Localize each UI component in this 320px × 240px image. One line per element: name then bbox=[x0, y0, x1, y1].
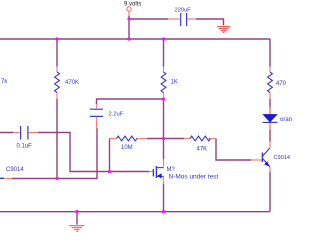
svg-text:47K: 47K bbox=[197, 147, 208, 153]
resistor 470K bbox=[56, 67, 58, 73]
transistor Q1 C9014 (left, cut off at edge: base pin) bbox=[4, 178, 12, 180]
svg-text:9 volts: 9 volts bbox=[124, 2, 141, 8]
transistor M? N-Mos under test (MOSFET) bbox=[149, 171, 153, 173]
wire 10M left lead down bbox=[109, 139, 111, 172]
svg-text:2.2uF: 2.2uF bbox=[109, 112, 124, 118]
svg-text:orang: orang bbox=[280, 117, 292, 123]
wire 0.1uF to gate line bbox=[0, 133, 149, 172]
svg-text:470: 470 bbox=[276, 81, 287, 87]
wire 2.2uF top to mid column bbox=[97, 99, 164, 104]
capacitor 2.2uF bbox=[96, 104, 98, 108]
wire base node y=178 bbox=[12, 128, 97, 179]
capacitor 0.1uF bbox=[13, 132, 20, 134]
LED D1 orange bbox=[269, 107, 271, 114]
svg-text:0.1uF: 0.1uF bbox=[17, 144, 33, 150]
wire left column 470K bbox=[56, 39, 58, 179]
resistor 470 bbox=[269, 67, 271, 73]
svg-text:220uF: 220uF bbox=[175, 7, 192, 13]
wire bottom ground bus bbox=[0, 211, 270, 213]
terminal 9 volts bbox=[127, 7, 131, 11]
resistor 47K bbox=[184, 138, 190, 140]
wire mid column to 47K bbox=[164, 138, 185, 140]
svg-text:10M: 10M bbox=[121, 145, 133, 151]
wire top bus bbox=[0, 38, 270, 40]
svg-text:N-Mos under test: N-Mos under test bbox=[169, 174, 219, 181]
wire 47K to Q2 base bbox=[216, 139, 251, 161]
svg-text:7k: 7k bbox=[1, 79, 8, 85]
ground bottom bbox=[76, 212, 78, 225]
node junction dots bbox=[127, 17, 130, 20]
svg-text:1K: 1K bbox=[171, 80, 178, 86]
svg-text:M?: M? bbox=[167, 167, 176, 173]
wire right column bbox=[269, 39, 271, 212]
wire 10M right to mid column bbox=[147, 138, 164, 140]
ground top right bbox=[217, 27, 230, 33]
svg-text:C9014: C9014 bbox=[274, 155, 290, 161]
wire 220uF to top ground bbox=[196, 19, 224, 26]
wire 9v feed down bbox=[128, 16, 130, 40]
resistor 10M bbox=[110, 138, 117, 140]
svg-text:C9014: C9014 bbox=[6, 167, 24, 173]
wire mid column bbox=[163, 39, 165, 212]
capacitor C 220uF bbox=[168, 18, 180, 20]
svg-text:470K: 470K bbox=[65, 80, 79, 86]
wire 9v to 220uF bbox=[129, 18, 168, 20]
resistor 1K bbox=[163, 67, 165, 73]
transistor Q2 C9014 (right NPN) bbox=[251, 159, 262, 161]
